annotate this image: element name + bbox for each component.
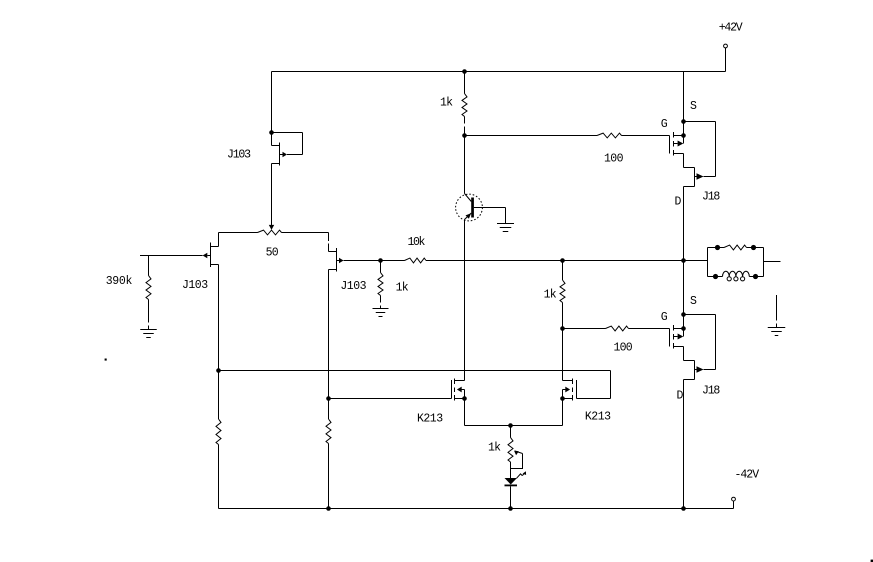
svg-text:G: G bbox=[661, 118, 668, 131]
svg-text:-42V: -42V bbox=[735, 468, 760, 481]
svg-text:J103: J103 bbox=[340, 280, 366, 293]
svg-text:J103: J103 bbox=[227, 148, 251, 161]
svg-text:K213: K213 bbox=[417, 413, 443, 426]
svg-text:1k: 1k bbox=[488, 442, 501, 455]
svg-text:J18: J18 bbox=[702, 385, 720, 398]
svg-text:1k: 1k bbox=[440, 96, 453, 109]
svg-text:100: 100 bbox=[604, 153, 624, 166]
svg-text:100: 100 bbox=[614, 342, 633, 355]
svg-text:10k: 10k bbox=[408, 236, 426, 249]
svg-text:S: S bbox=[690, 100, 697, 113]
svg-text:D: D bbox=[677, 390, 684, 403]
svg-text:S: S bbox=[690, 295, 697, 308]
svg-text:J18: J18 bbox=[702, 190, 720, 203]
svg-text:J103: J103 bbox=[182, 279, 208, 292]
svg-text:K213: K213 bbox=[585, 410, 611, 423]
svg-text:1k: 1k bbox=[544, 288, 557, 301]
svg-text:D: D bbox=[675, 195, 682, 208]
svg-text:+42V: +42V bbox=[719, 21, 743, 34]
svg-text:1k: 1k bbox=[396, 282, 409, 295]
svg-text:390k: 390k bbox=[106, 275, 133, 288]
svg-text:50: 50 bbox=[266, 246, 279, 259]
svg-text:G: G bbox=[661, 311, 668, 324]
